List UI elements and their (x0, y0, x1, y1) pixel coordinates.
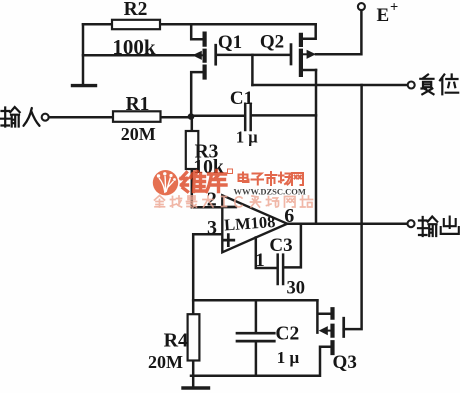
wire lower bottom rail (191, 374, 320, 377)
watermark trademark mark (228, 169, 233, 174)
wire Q2 bottom lead (303, 69, 316, 72)
watermark logo circle (153, 170, 178, 195)
svg-text:R2: R2 (124, 0, 148, 20)
resistor R1 (113, 111, 161, 122)
port label: reset (420, 75, 433, 95)
svg-text:E: E (377, 5, 390, 26)
wire Q2 drain to top rail (303, 24, 316, 38)
svg-text:20M: 20M (148, 352, 183, 372)
wire node A through R3 to pin 2 (192, 117, 223, 208)
wire gate line Q1-Q2 (217, 54, 290, 57)
svg-text:LM108: LM108 (223, 212, 276, 235)
char zui (187, 196, 197, 208)
char qiu (171, 196, 182, 207)
capacitor C1 leads (191, 114, 316, 117)
node A junction dot (188, 113, 195, 120)
watermark (153, 169, 313, 208)
resistor R3 (186, 131, 199, 169)
svg-text:WWW.DZSC.COM: WWW.DZSC.COM (234, 187, 306, 197)
watermark brand char ku (207, 171, 227, 192)
wire mid vertical Q2 to output (315, 70, 318, 224)
capacitor C3 plates (278, 255, 283, 284)
char quan (155, 196, 165, 208)
svg-text:3: 3 (207, 217, 217, 239)
char zhan (301, 196, 313, 207)
svg-text:1 μ: 1 μ (236, 128, 258, 147)
terminal output (408, 220, 415, 227)
char I (222, 197, 227, 207)
svg-text:100k: 100k (112, 35, 156, 59)
wire output line (287, 222, 407, 225)
watermark slogan row (155, 196, 313, 208)
port label: input (1, 107, 20, 127)
wire feedback line 100k to Q1 body (83, 54, 194, 57)
terminal reset (408, 82, 415, 89)
svg-text:30: 30 (286, 279, 305, 299)
wire Q1 source down to node A (191, 72, 202, 117)
transistor Q1 gate plate (214, 45, 217, 64)
svg-text:1 μ: 1 μ (277, 348, 300, 367)
svg-text:+: + (390, 0, 398, 16)
transistor Q3 channel dashes (330, 309, 334, 353)
transistor Q2 gate plate (290, 45, 293, 64)
svg-text:C2: C2 (275, 323, 299, 344)
char da (203, 196, 213, 207)
svg-text:6: 6 (284, 205, 294, 227)
wire reset line (252, 84, 407, 87)
ground top-left (73, 84, 96, 87)
wire Q3 source to rail (320, 347, 330, 376)
svg-text:20M: 20M (121, 124, 156, 144)
svg-text:Q3: Q3 (333, 352, 357, 373)
terminal input (42, 114, 49, 121)
char wang (292, 173, 303, 185)
resistor R2 (112, 20, 160, 29)
char wang2 (285, 197, 296, 208)
watermark text: electronics market row (239, 172, 304, 185)
char chang (279, 173, 292, 185)
wire Q2 source to E+ (316, 10, 362, 54)
svg-text:R1: R1 (126, 94, 150, 115)
transistor Q2 channel dashes (299, 35, 303, 75)
wire C3 to output node (284, 224, 301, 268)
wire R4 vertical (192, 300, 195, 375)
wire upper bottom rail (193, 299, 317, 302)
capacitor C1 plates (245, 104, 251, 130)
resistor R4 (188, 314, 200, 360)
svg-text:1: 1 (255, 250, 265, 271)
svg-text:C3: C3 (269, 235, 292, 256)
char C (235, 197, 242, 207)
char shi (266, 172, 277, 185)
watermark brand char wei (181, 172, 206, 192)
svg-text:Q2: Q2 (260, 32, 284, 53)
wire top rail from R2 to Q1/Q2 drains (83, 23, 316, 26)
transistor Q3 body arrow (328, 330, 331, 332)
op-amp minus sign (225, 206, 236, 209)
svg-text:Q1: Q1 (218, 32, 242, 53)
wire Q1 drain (191, 24, 202, 39)
transistor Q1 body arrow (202, 54, 204, 56)
wire input to node A (49, 116, 191, 119)
wire pin 3 to bottom rail (193, 234, 222, 300)
op-amp plus sign (223, 235, 234, 246)
char gou (267, 197, 279, 208)
transistor Q1 channel dashes (203, 34, 207, 78)
char zi (252, 174, 264, 185)
transistor Q2 body arrow (303, 53, 308, 55)
char dian (239, 173, 249, 183)
ground bottom (192, 376, 195, 387)
svg-text:R4: R4 (164, 330, 188, 352)
port label: output (418, 217, 437, 237)
svg-text:C1: C1 (230, 88, 253, 109)
char cai (251, 196, 261, 207)
wire R2 left vertical (82, 24, 85, 84)
capacitor C2 bottom lead (255, 343, 258, 376)
wire gate drop to reset line (251, 55, 254, 85)
transistor Q3 gate plate (342, 318, 345, 336)
wire Q3 gate to reset vertical (344, 85, 362, 329)
op-amp U1 LM108 triangle (222, 195, 287, 252)
capacitor C2 plates (237, 333, 274, 341)
wire Q3 drain/body bus (317, 300, 329, 332)
capacitor C2 top lead (255, 300, 258, 331)
terminal E+ (358, 3, 365, 10)
wire pin 1 down (256, 238, 277, 269)
